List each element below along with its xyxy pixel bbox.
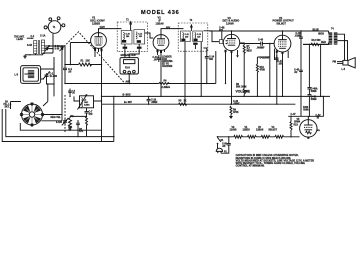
wire T4 left leads (303, 31, 329, 44)
svg-text:C-1: C-1 (31, 36, 35, 38)
capacitor C-17 (275, 55, 283, 65)
IF transformer T3 (178, 20, 208, 51)
wire left bus verticals (101, 96, 103, 104)
wire V1 pins down (95, 48, 102, 97)
wire AVC to 215.8 drop (215, 51, 217, 84)
wire C-14 leads (203, 48, 206, 84)
tube socket bottom view (20, 103, 43, 126)
resistor R10 (256, 64, 265, 72)
capacitor C-4 (63, 65, 72, 84)
wire nested return loops (20, 123, 101, 130)
svg-text:.05MF: .05MF (233, 104, 240, 106)
node tube pin blobs (94, 48, 309, 139)
svg-text:F2-5: F2-5 (125, 68, 130, 70)
tube V1 (91, 33, 107, 49)
svg-text:L-5: L-5 (15, 75, 19, 77)
capacitor C-45 (294, 69, 303, 74)
wire volume bottom (243, 94, 245, 96)
capacitor C-2A trimmer at coil (45, 45, 61, 51)
svg-text:12BA6: 12BA6 (256, 129, 264, 132)
svg-text:22K: 22K (86, 61, 91, 63)
svg-text:C-40: C-40 (258, 38, 264, 41)
heater V1 (248, 135, 257, 138)
resistor R7 (243, 45, 252, 53)
svg-text:C-1A: C-1A (40, 35, 46, 38)
svg-text:50MF: 50MF (311, 91, 318, 93)
svg-text:T1: T1 (53, 27, 56, 29)
resistor R4 (159, 79, 170, 88)
svg-text:R5: R5 (179, 100, 183, 102)
svg-text:130: 130 (139, 36, 142, 38)
oscillator coil L2 (78, 95, 94, 110)
dashed gang vertical (64, 95, 66, 133)
svg-text:.05: .05 (72, 93, 75, 95)
heater V2 (261, 135, 270, 138)
svg-text:R15: R15 (294, 124, 299, 126)
svg-text:.05: .05 (222, 146, 226, 148)
resistor R9 (230, 106, 239, 114)
svg-text:470K: 470K (260, 68, 266, 71)
capacitor C-1B osc trimmer (56, 118, 68, 125)
wire gang vertical (53, 62, 55, 84)
svg-text:B- BUS: B- BUS (123, 94, 131, 96)
capacitor C-2A trimmer with arrow (43, 71, 57, 78)
wire T3 secondary to V3 (203, 31, 219, 42)
svg-text:.05: .05 (154, 59, 158, 61)
wire coil bottoms to junction (30, 54, 43, 55)
speaker LS (333, 58, 356, 72)
svg-text:12BE6: 12BE6 (243, 130, 251, 132)
switch S1 (217, 136, 224, 144)
tube V2 (153, 35, 169, 51)
ground at antenna coil (23, 55, 30, 58)
capacitor C-15 box at V3 grid (219, 40, 222, 44)
svg-text:12AV6: 12AV6 (226, 21, 234, 25)
IF transformer T2 (117, 19, 147, 51)
transformer T1 top view (44, 17, 65, 34)
capacitor C-8 (68, 120, 80, 131)
svg-text:50L6GT: 50L6GT (277, 21, 287, 25)
svg-text:B+ 90V: B+ 90V (124, 102, 132, 104)
svg-text:RED-YEL: RED-YEL (51, 117, 62, 119)
svg-text:LEAD: LEAD (17, 38, 24, 41)
capacitor C-19 (147, 96, 159, 105)
output transformer T4 (318, 28, 337, 45)
svg-text:30: 30 (317, 118, 320, 120)
resistor R3 (79, 116, 88, 133)
wire V2 plate to T3 (161, 29, 184, 35)
svg-text:AVC: AVC (126, 80, 131, 83)
capacitor C-50 (222, 136, 231, 151)
svg-text:12BE6: 12BE6 (92, 21, 100, 25)
svg-text:.05: .05 (68, 71, 72, 73)
svg-text:1.5MC: 1.5MC (84, 104, 90, 106)
node ant coil bottom (29, 54, 30, 55)
heater V4 (275, 135, 284, 138)
svg-text:1K: 1K (184, 100, 187, 102)
wire V3 pins down (226, 50, 238, 104)
capacitor C-14 (205, 51, 215, 62)
capacitor C-48A (307, 87, 317, 94)
antenna coil L1 windings (34, 40, 45, 54)
wire V1 grid line (70, 43, 91, 65)
heater V3 (234, 135, 243, 138)
wire P1 to C-50 (221, 151, 229, 153)
svg-text:BLUE: BLUE (313, 29, 320, 31)
wire socket leads (11, 84, 63, 121)
resistor R1 22K (79, 61, 92, 66)
svg-text:2.2MEG: 2.2MEG (162, 87, 171, 89)
wire AVC line (65, 83, 159, 85)
svg-text:50MF: 50MF (311, 99, 318, 101)
capacitor C-5 (68, 89, 75, 98)
svg-text:L-5: L-5 (342, 69, 346, 71)
wire osc coil connections (74, 96, 102, 101)
resistor R15 (290, 107, 309, 130)
tube V4 (274, 35, 291, 52)
capacitor C-13 (153, 55, 161, 62)
tube V5 rectifier (300, 120, 317, 137)
wire screen feeds right verticals (301, 38, 321, 116)
svg-text:.02: .02 (294, 72, 298, 74)
svg-text:120: 120 (185, 36, 188, 38)
tube V3 (223, 34, 239, 50)
loop antenna L-5 (21, 66, 41, 84)
wire R1 leads (65, 64, 102, 66)
svg-text:CHASSIS: CHASSIS (162, 65, 173, 68)
svg-text:35W4: 35W4 (294, 120, 301, 123)
svg-text:MODEL 436: MODEL 436 (141, 10, 180, 16)
wire gang frame vertical (61, 46, 63, 121)
wire filament line (218, 136, 300, 138)
wire T1 to ant coil (43, 34, 53, 53)
wire V1 signal path from coil (45, 46, 65, 65)
wire T4 to speaker (337, 34, 347, 60)
svg-text:50K OHM: 50K OHM (236, 86, 246, 88)
wire antenna lead arrow (27, 37, 34, 39)
wire B- bus (102, 95, 331, 97)
wire V3 plate to B+ rail (231, 31, 233, 34)
wire loop to trimmer and gang (41, 57, 54, 84)
wire V1 plate to T2 (99, 29, 122, 33)
dashed gang link (60, 32, 126, 84)
svg-text:12BA6: 12BA6 (156, 21, 165, 25)
svg-text:MEG: MEG (247, 51, 252, 53)
svg-text:12AV6: 12AV6 (230, 129, 238, 132)
svg-text:470K: 470K (233, 111, 239, 114)
wire R7 leads / volume line (240, 43, 244, 88)
resistor R2 (69, 116, 75, 128)
volume control R6 (236, 84, 251, 94)
svg-text:T3: T3 (190, 20, 193, 22)
svg-text:.05MF: .05MF (151, 102, 158, 104)
wire R4 to T3 (167, 83, 216, 85)
capacitor C-7 (85, 108, 94, 117)
wire 269.8 drop (269, 44, 271, 97)
wire V2 pins down (158, 50, 165, 97)
svg-text:S1: S1 (221, 140, 225, 142)
svg-text:RED: RED (321, 42, 326, 44)
svg-text:B+: B+ (317, 130, 321, 132)
svg-text:470: 470 (89, 113, 94, 116)
capacitor C-20 (230, 101, 240, 105)
wire B+ top rail (209, 30, 329, 32)
capacitor C-46 (295, 30, 303, 38)
plug P1 (216, 144, 227, 154)
capacitor C-16 (257, 57, 269, 64)
capacitor C-3 on gang line (60, 46, 64, 47)
svg-text:50L6GT: 50L6GT (269, 130, 278, 132)
capacitor C-40 coupling (240, 38, 274, 49)
svg-text:.005: .005 (265, 57, 270, 59)
svg-text:.006MF: .006MF (257, 47, 265, 49)
svg-text:T4: T4 (331, 28, 334, 31)
svg-text:3-30: 3-30 (55, 49, 60, 51)
capacitor C-4B at V3 grid (219, 26, 225, 39)
svg-text:S-53: S-53 (27, 45, 33, 47)
wire T3 bottoms (185, 49, 201, 104)
svg-text:PM: PM (333, 62, 337, 64)
wire F2-5 pin to AVC (128, 74, 130, 84)
ground under R9 (229, 114, 233, 119)
wire T2 bottoms (125, 49, 139, 58)
svg-text:280: 280 (126, 36, 129, 38)
capacitor C-48B (307, 95, 317, 117)
wire T2 secondary to V2 grid (145, 33, 154, 38)
svg-text:120: 120 (197, 36, 200, 38)
svg-text:R4: R4 (164, 79, 168, 82)
svg-text:6-190: 6-190 (56, 122, 63, 124)
node trimmer junction (47, 83, 48, 84)
loop plug F2-5 (120, 55, 138, 74)
wire osc bottom bus (70, 116, 87, 136)
wire V4 pins down (275, 49, 289, 105)
wire R10 bottom (256, 72, 258, 96)
svg-text:HIGH: HIGH (318, 34, 324, 36)
notes text block (236, 154, 315, 167)
svg-text:GREEN LOOP: GREEN LOOP (121, 55, 137, 57)
svg-text:T2: T2 (126, 19, 129, 21)
svg-text:R1: R1 (81, 61, 85, 63)
resistor R5 in B+ line (179, 100, 187, 105)
resistor R12 (303, 40, 328, 46)
svg-text:C-47: C-47 (291, 113, 297, 116)
svg-text:CONTROL AT MINIMUM.: CONTROL AT MINIMUM. (236, 165, 265, 168)
wire 116 line (288, 96, 323, 116)
svg-text:OHM: OHM (303, 110, 308, 112)
wire V4 plate up to rail (282, 31, 284, 35)
wire R15 leads (290, 116, 292, 137)
wire V5 plate (307, 116, 309, 119)
wire B+ 90V line (102, 103, 296, 105)
svg-text:SKT.: SKT. (5, 106, 10, 108)
